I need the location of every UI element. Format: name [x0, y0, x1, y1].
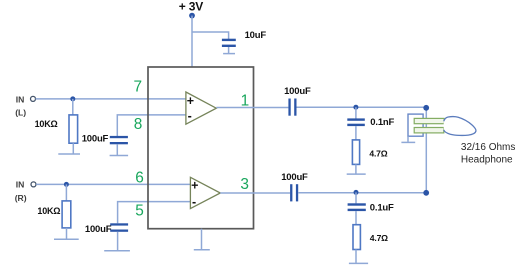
wire: jack sleeve to ground	[407, 136, 409, 142]
resistor R2 4.7 ohm (R zobel)	[353, 225, 360, 250]
svg-text:100uF: 100uF	[82, 134, 109, 145]
wire: junction down to C5	[355, 107, 357, 118]
wire: C2 to ground	[116, 144, 118, 155]
svg-text:100uF: 100uF	[281, 172, 308, 183]
wire: +3V rail down to IC top	[191, 16, 193, 67]
terminal: input L open circle	[31, 96, 36, 101]
op-amp U1A triangle	[186, 92, 216, 124]
capacitor C3 100uF (R feedback bypass)	[110, 223, 128, 232]
svg-text:+ 3V: + 3V	[179, 0, 203, 13]
ground: below 10uF	[223, 53, 235, 55]
IC U1 body	[148, 67, 254, 229]
svg-text:0.1nF: 0.1nF	[370, 117, 394, 128]
wire: input R to op-amp U1B + input (pin 6)	[36, 183, 190, 185]
svg-text:5: 5	[135, 203, 144, 220]
node: R output junction	[354, 190, 359, 195]
wire: junction down to C7	[355, 192, 357, 203]
svg-text:3: 3	[240, 176, 249, 193]
resistor R1 4.7 ohm (L zobel)	[352, 140, 359, 165]
svg-text:100uF: 100uF	[284, 86, 311, 97]
svg-text:32/16 Ohms: 32/16 Ohms	[461, 142, 515, 153]
capacitor C2 100uF (L feedback bypass)	[110, 136, 128, 144]
wire: junction down to R4	[65, 184, 67, 201]
svg-text:4.7Ω: 4.7Ω	[369, 149, 387, 159]
svg-text:(L): (L)	[15, 108, 26, 118]
op-amp U1B triangle	[190, 177, 220, 208]
capacitor C1 10uF	[222, 39, 236, 47]
headphone earpiece outline	[444, 117, 476, 136]
capacitor C6 100uF (R output coupling)	[290, 184, 298, 201]
wire: C3 to ground	[117, 232, 119, 250]
wire: C2 riser to op-amp U1A - input (pin 8)	[117, 115, 186, 136]
svg-text:-: -	[192, 195, 196, 209]
headphone jack ring contact (bottom green bar)	[414, 128, 444, 133]
svg-text:(R): (R)	[15, 193, 27, 203]
wire: junction down to R3	[72, 99, 74, 115]
ground: below R4	[54, 238, 79, 240]
headphone jack sleeve bracket	[408, 114, 423, 136]
headphone jack tip contact (top green bar)	[414, 118, 444, 123]
wire: pin 3 output to C6	[220, 192, 290, 194]
wire: R2 to ground	[355, 250, 357, 263]
ground: below C3	[104, 250, 130, 252]
wire: pin 1 output to C4	[216, 107, 288, 109]
wire: branch to 10uF cap	[192, 32, 229, 39]
svg-text:IN: IN	[16, 94, 25, 104]
resistor R3 10K (L input bias)	[69, 115, 78, 143]
svg-text:100uF: 100uF	[85, 224, 112, 235]
wire: input L to op-amp U1A + input (pin 7)	[36, 98, 186, 100]
svg-text:0.1uF: 0.1uF	[370, 203, 394, 214]
wire: 10uF to ground	[228, 47, 230, 53]
capacitor C7 0.1uF (R zobel)	[348, 203, 366, 211]
terminal: input R open circle	[31, 182, 36, 187]
node: junction input L / R3	[70, 96, 75, 101]
svg-text:10KΩ: 10KΩ	[37, 206, 60, 216]
ground: below C2	[110, 155, 129, 157]
node: +3V supply dot	[189, 13, 195, 19]
wire: C3 riser to op-amp U1B - input (pin 5)	[118, 202, 191, 224]
node: L output junction	[353, 105, 358, 110]
node: headphone bottom connection	[423, 190, 429, 196]
ground: jack sleeve	[401, 141, 415, 143]
svg-text:7: 7	[134, 78, 143, 95]
wire: C4 to headphone top node	[297, 106, 427, 108]
wire: C5 to R1	[355, 126, 357, 140]
wire: IC ground pin	[201, 229, 203, 250]
wire: R1 to ground	[355, 164, 357, 173]
label IN (L)	[15, 94, 26, 117]
node: junction input R / R4	[64, 182, 69, 187]
capacitor C5 0.1nF (L zobel)	[347, 118, 365, 126]
wire: headphone jack vertical (tip/ring stubs)	[425, 108, 427, 193]
ground: below R1	[347, 173, 366, 175]
wire: C7 to R2	[355, 211, 357, 225]
label 32/16 Ohms Headphone	[461, 142, 515, 166]
ground: below R3	[58, 153, 80, 155]
label IN (R)	[15, 180, 27, 203]
svg-text:4.7Ω: 4.7Ω	[370, 233, 388, 243]
node: headphone top connection	[423, 105, 429, 111]
svg-text:8: 8	[134, 116, 143, 133]
svg-text:-: -	[188, 109, 192, 123]
resistor R4 10K (R input bias)	[62, 201, 71, 228]
ground: IC	[194, 249, 210, 251]
svg-text:+: +	[191, 179, 198, 193]
svg-text:Headphone: Headphone	[461, 154, 513, 165]
svg-text:+: +	[187, 94, 194, 108]
svg-text:10uF: 10uF	[245, 30, 267, 41]
wire: R3 to ground	[72, 143, 74, 153]
wire: R4 to ground	[66, 228, 68, 239]
svg-text:10KΩ: 10KΩ	[35, 119, 58, 129]
capacitor C4 100uF (L output coupling)	[288, 99, 296, 116]
ground: below R2	[349, 262, 368, 264]
wire: C6 to headphone bottom node	[298, 192, 426, 194]
svg-text:6: 6	[135, 169, 144, 186]
svg-text:IN: IN	[16, 180, 25, 190]
